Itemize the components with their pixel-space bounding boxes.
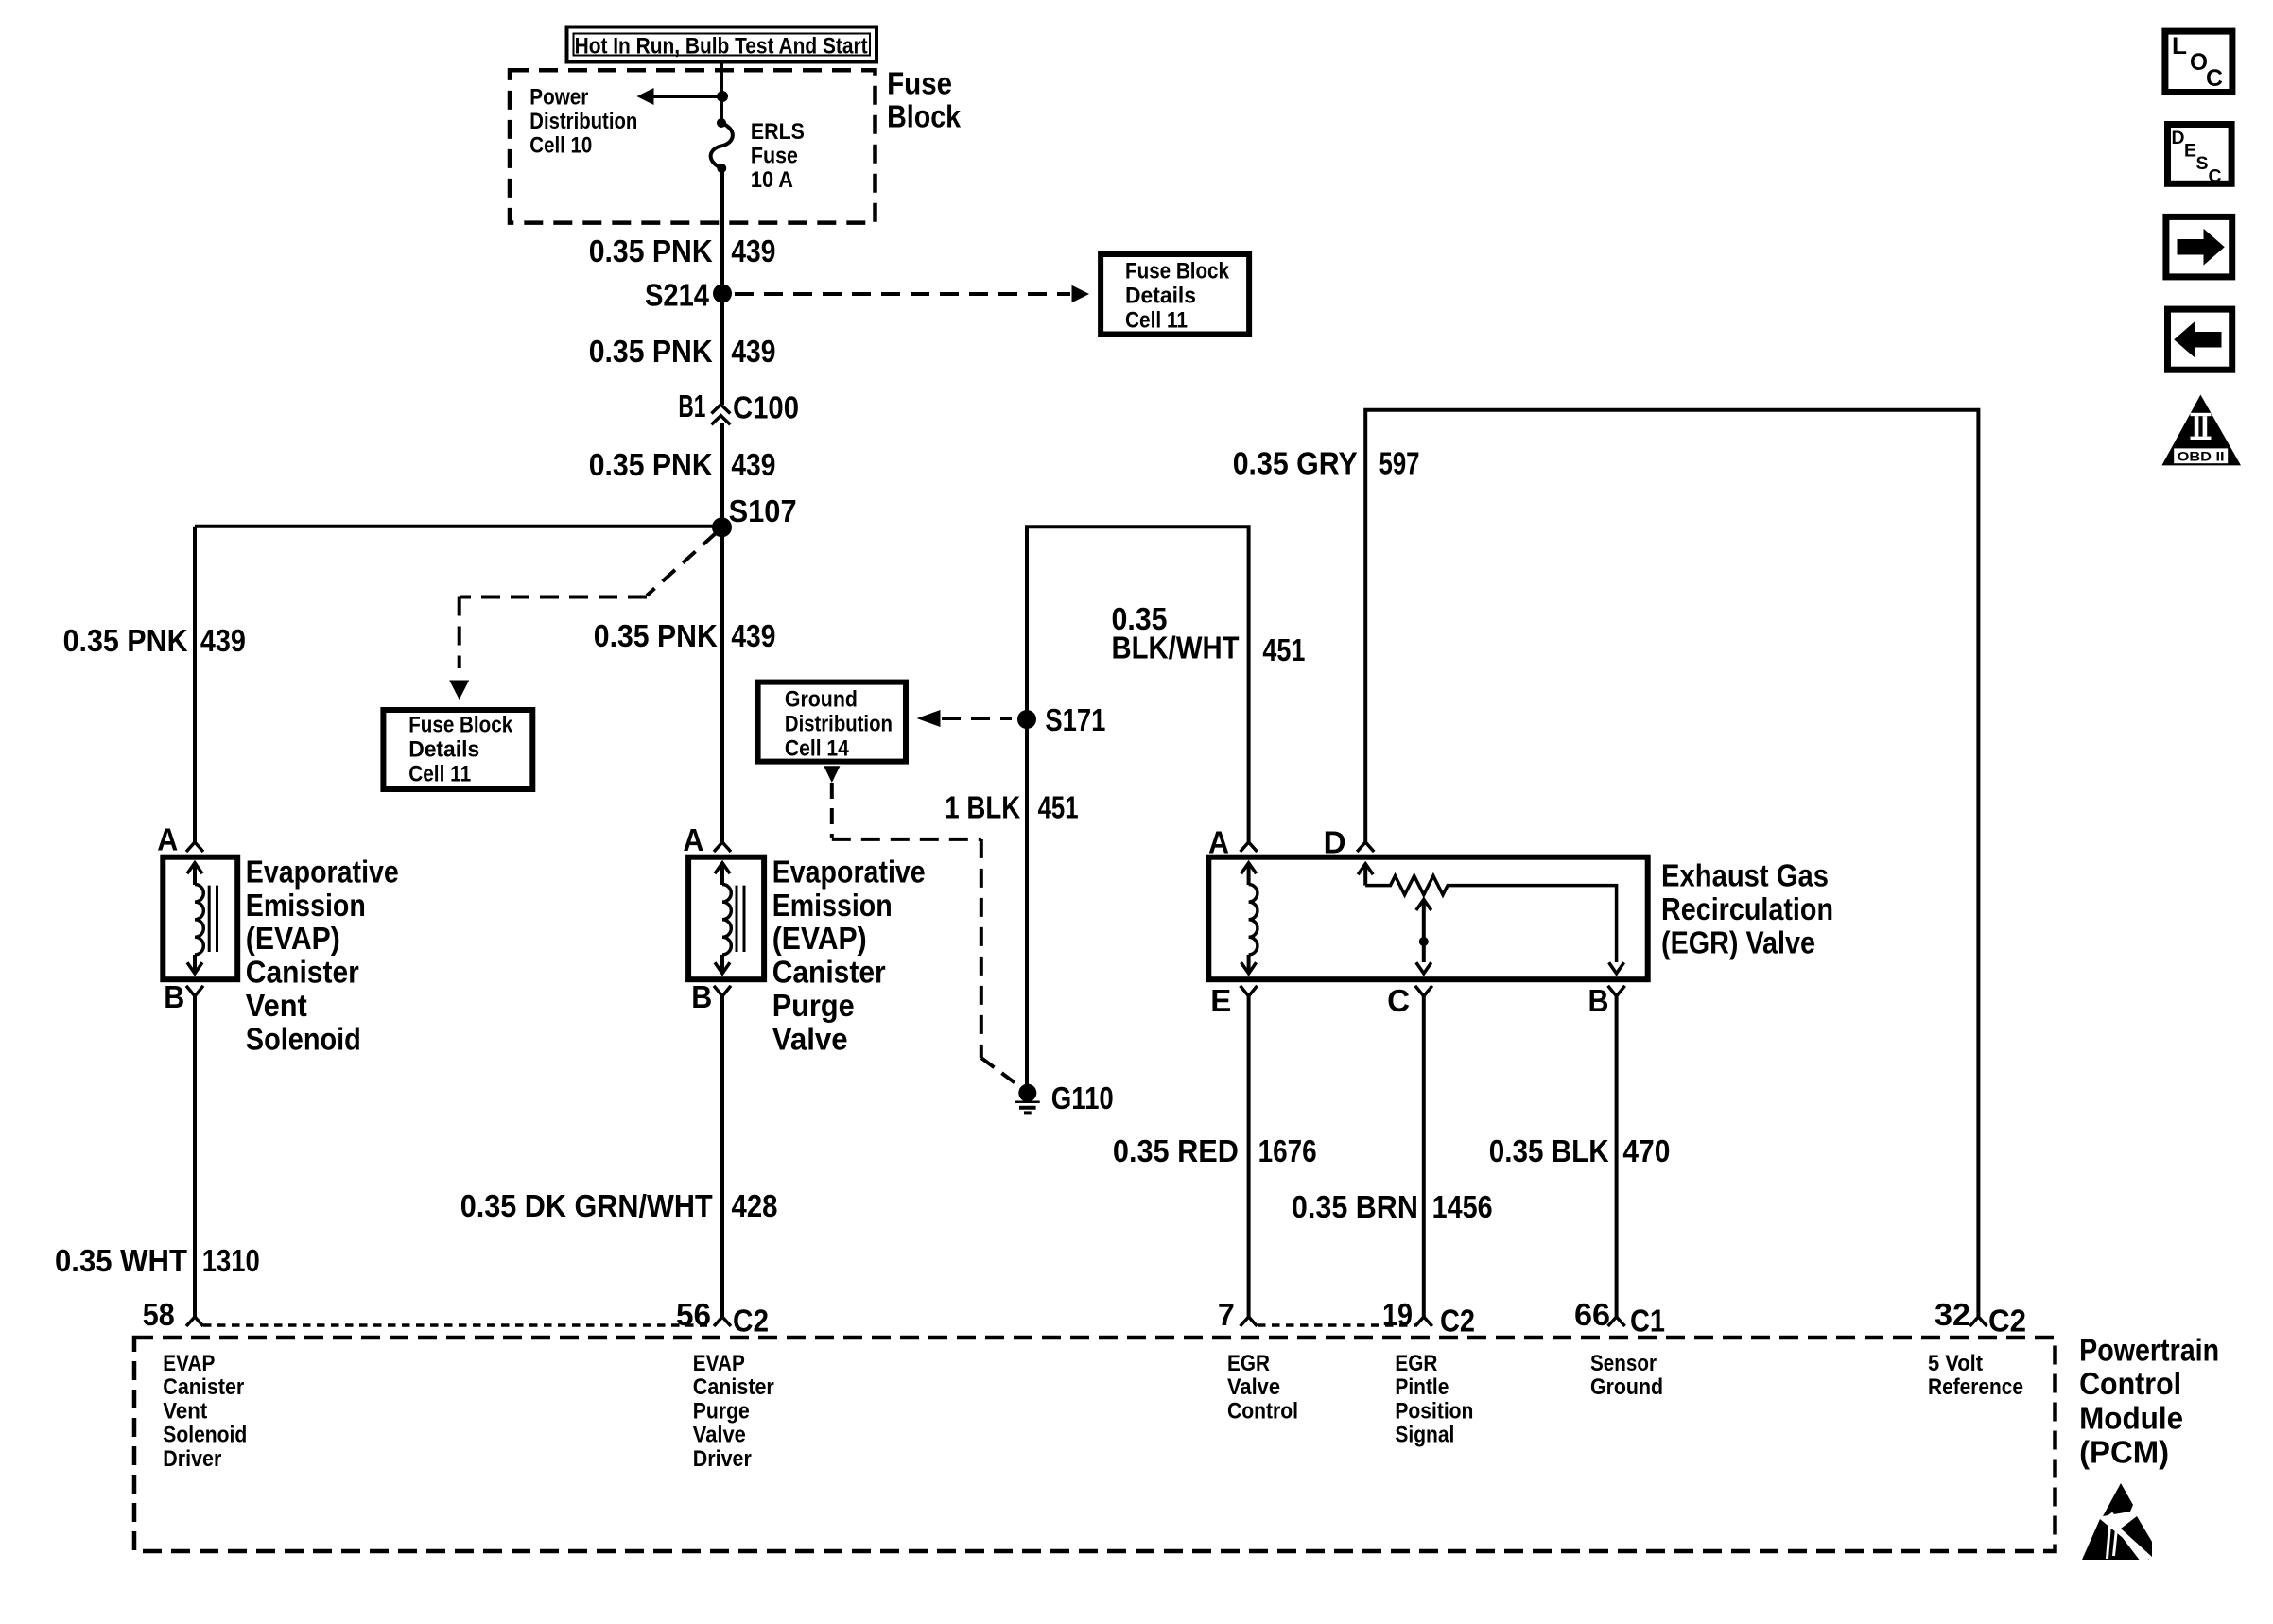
svg-text:Fuse: Fuse — [887, 66, 952, 101]
svg-text:B: B — [164, 979, 184, 1014]
svg-text:BLK/WHT: BLK/WHT — [1112, 630, 1240, 665]
svg-text:Distribution: Distribution — [529, 109, 637, 134]
svg-text:Powertrain: Powertrain — [2079, 1332, 2219, 1367]
svg-text:Ground: Ground — [1590, 1374, 1663, 1400]
wire: hot feed from title box into fuse block — [720, 61, 723, 96]
svg-text:32: 32 — [1935, 1297, 1970, 1332]
svg-text:Valve: Valve — [772, 1021, 848, 1056]
margin icon: OBD II triangle — [2161, 395, 2241, 466]
wire: EGR E to PCM pin 7, 0.35 RED 1676 — [1247, 996, 1251, 1317]
svg-text:S107: S107 — [729, 493, 797, 528]
svg-text:A: A — [157, 822, 178, 857]
svg-text:Valve: Valve — [693, 1423, 746, 1448]
svg-text:451: 451 — [1262, 632, 1305, 667]
splice S171 — [1017, 710, 1036, 729]
dashed reference: G110 to Ground Distribution box — [824, 766, 840, 783]
svg-text:(EVAP): (EVAP) — [772, 921, 867, 956]
svg-text:1 BLK: 1 BLK — [945, 790, 1020, 825]
margin icon: DESC — [2168, 125, 2232, 184]
svg-text:1456: 1456 — [1432, 1189, 1493, 1224]
svg-text:5 Volt: 5 Volt — [1928, 1351, 1983, 1376]
component: EGR valve (box) — [1208, 857, 1647, 979]
svg-text:Sensor: Sensor — [1590, 1351, 1657, 1376]
svg-text:Solenoid: Solenoid — [163, 1423, 247, 1448]
svg-text:439: 439 — [200, 623, 246, 658]
dashed reference from S107 to Fuse Block Details (lower) — [647, 533, 716, 596]
svg-text:439: 439 — [731, 447, 775, 482]
arrow: to Power Distribution Cell 10 — [652, 95, 722, 98]
margin icon: LOC — [2165, 31, 2232, 92]
svg-text:Recirculation: Recirculation — [1661, 891, 1833, 926]
in-line connector C100 terminal B1 — [711, 405, 730, 414]
margin icon: back arrow — [2168, 309, 2232, 370]
svg-text:L: L — [2172, 33, 2187, 60]
wire: S171 to ground G110, 1 BLK 451 — [1025, 719, 1029, 1084]
wire: S107 down to EVAP purge valve — [720, 527, 724, 842]
svg-text:Emission: Emission — [772, 888, 893, 923]
svg-text:Signal: Signal — [1395, 1423, 1454, 1448]
ground G110 — [1018, 1084, 1036, 1102]
svg-text:Cell 11: Cell 11 — [1125, 307, 1188, 333]
svg-text:Vent: Vent — [246, 988, 307, 1023]
svg-text:Cell 10: Cell 10 — [529, 132, 592, 158]
svg-text:E: E — [2184, 142, 2196, 162]
wire: EGR B to PCM pin 66, 0.35 BLK 470 — [1615, 996, 1619, 1317]
component: EVAP canister vent solenoid (box) — [163, 857, 237, 979]
wire: S107 branch to EVAP vent solenoid (horizontal) — [195, 525, 721, 528]
svg-text:0.35 PNK: 0.35 PNK — [589, 334, 713, 369]
svg-text:Control: Control — [1227, 1398, 1298, 1424]
svg-text:Driver: Driver — [693, 1446, 752, 1472]
svg-text:C2: C2 — [1440, 1304, 1475, 1339]
svg-text:Cell 14: Cell 14 — [785, 735, 850, 761]
svg-text:0.35 DK GRN/WHT: 0.35 DK GRN/WHT — [460, 1188, 713, 1223]
svg-text:0.35 WHT: 0.35 WHT — [55, 1243, 187, 1278]
svg-text:0.35 PNK: 0.35 PNK — [594, 618, 718, 653]
svg-text:Vent: Vent — [163, 1398, 207, 1424]
EGR pintle position potentiometer — [1358, 864, 1373, 875]
svg-text:Evaporative: Evaporative — [772, 854, 926, 889]
svg-text:0.35 RED: 0.35 RED — [1113, 1133, 1239, 1168]
svg-text:Fuse Block: Fuse Block — [1125, 258, 1230, 284]
svg-text:66: 66 — [1574, 1297, 1610, 1332]
wire: EVAP vent solenoid B to PCM pin 58, 0.35 WHT 1310 — [193, 996, 197, 1317]
svg-text:Details: Details — [408, 737, 479, 763]
svg-text:7: 7 — [1218, 1297, 1235, 1332]
svg-text:439: 439 — [731, 334, 775, 369]
svg-text:58: 58 — [143, 1297, 175, 1332]
svg-text:0.35 BRN: 0.35 BRN — [1292, 1189, 1418, 1224]
dashed reference arrow: Ground Distribution to S171 — [917, 710, 941, 727]
svg-text:C100: C100 — [733, 390, 799, 425]
svg-text:Details: Details — [1125, 283, 1196, 308]
wire: 0.35 GRY 597 from PCM 5 V reference to EGR pin D — [1365, 410, 1978, 1317]
svg-text:(EGR) Valve: (EGR) Valve — [1661, 924, 1815, 959]
svg-text:Purge: Purge — [772, 988, 855, 1023]
EGR solenoid coil symbol — [1247, 863, 1251, 885]
svg-text:ERLS: ERLS — [751, 119, 805, 145]
reference box: Fuse Block Details Cell 11 (lower) — [383, 710, 532, 789]
wire: S214 to C100, 0.35 PNK 439 — [720, 294, 724, 405]
svg-text:C2: C2 — [733, 1304, 769, 1339]
svg-text:439: 439 — [731, 233, 775, 268]
svg-text:C: C — [2206, 65, 2223, 92]
potentiometer wiper to pin C — [1416, 900, 1431, 911]
svg-text:Driver: Driver — [163, 1446, 221, 1472]
svg-text:Canister: Canister — [772, 955, 886, 990]
svg-text:EGR: EGR — [1395, 1351, 1437, 1376]
wire: ERLS fuse output, 0.35 PNK 439 — [720, 168, 724, 293]
svg-text:Control: Control — [2079, 1366, 2181, 1401]
svg-text:Emission: Emission — [246, 888, 366, 923]
svg-text:Ground: Ground — [785, 686, 858, 712]
svg-text:451: 451 — [1038, 790, 1079, 825]
svg-text:Distribution: Distribution — [785, 711, 893, 736]
svg-text:EVAP: EVAP — [163, 1351, 215, 1376]
svg-text:470: 470 — [1622, 1133, 1670, 1168]
svg-text:Fuse: Fuse — [751, 144, 798, 169]
svg-text:Cell 11: Cell 11 — [408, 762, 471, 787]
wire: C100 to S107, 0.35 PNK 439 — [720, 423, 724, 527]
svg-text:Purge: Purge — [693, 1398, 750, 1424]
svg-text:0.35 PNK: 0.35 PNK — [589, 233, 713, 268]
wire: tap to fuse — [720, 96, 723, 123]
wire: EVAP purge valve B to PCM pin 56, 0.35 DK GRN/WHT 428 — [720, 996, 724, 1317]
svg-text:Fuse Block: Fuse Block — [408, 713, 513, 738]
connector grouping (dotted) pins 7-19 — [1258, 1323, 1415, 1327]
svg-text:0.35 PNK: 0.35 PNK — [63, 623, 188, 658]
svg-text:Solenoid: Solenoid — [246, 1021, 361, 1056]
Powertrain Control Module (dashed box) — [134, 1338, 2056, 1551]
svg-text:D: D — [2172, 129, 2185, 148]
reference box: Fuse Block Details Cell 11 (upper) — [1101, 254, 1249, 335]
label box: Hot In Run, Bulb Test And Start — [567, 27, 877, 62]
svg-text:597: 597 — [1379, 445, 1420, 480]
svg-text:Exhaust Gas: Exhaust Gas — [1661, 857, 1829, 892]
svg-text:B: B — [691, 979, 712, 1014]
svg-text:1310: 1310 — [202, 1243, 260, 1278]
svg-text:EGR: EGR — [1227, 1351, 1270, 1376]
svg-text:0.35 GRY: 0.35 GRY — [1233, 445, 1358, 480]
svg-text:Evaporative: Evaporative — [246, 854, 399, 889]
svg-text:10 A: 10 A — [751, 167, 793, 193]
svg-text:439: 439 — [731, 618, 775, 653]
svg-text:0.35 BLK: 0.35 BLK — [1489, 1133, 1609, 1168]
svg-text:G110: G110 — [1051, 1080, 1114, 1115]
svg-text:Module: Module — [2079, 1401, 2183, 1436]
svg-text:Pintle: Pintle — [1395, 1374, 1449, 1400]
svg-text:Canister: Canister — [163, 1374, 244, 1400]
wire: left branch down to EVAP vent solenoid, 0.35 PNK 439 — [193, 527, 197, 842]
wire: 0.35 BLK/WHT 451 from S171 up and over to EGR pin A — [1027, 527, 1249, 842]
svg-text:S171: S171 — [1045, 702, 1105, 737]
svg-text:Block: Block — [887, 99, 962, 134]
ESD sensitivity symbol — [2103, 1483, 2133, 1516]
solenoid coil symbol (purge) — [720, 863, 724, 885]
solenoid coil symbol (vent) — [193, 863, 197, 885]
svg-text:428: 428 — [732, 1188, 778, 1223]
svg-text:C2: C2 — [1988, 1304, 2026, 1339]
svg-text:1676: 1676 — [1258, 1133, 1317, 1168]
svg-text:Valve: Valve — [1227, 1374, 1280, 1400]
wire: EGR C to PCM pin 19, 0.35 BRN 1456 — [1422, 996, 1426, 1317]
svg-text:A: A — [683, 822, 703, 857]
svg-text:EVAP: EVAP — [693, 1351, 745, 1376]
svg-text:E: E — [1210, 983, 1231, 1018]
fuse block (dashed box) — [510, 70, 876, 222]
component: EVAP canister purge valve (box) — [688, 857, 764, 979]
svg-text:Canister: Canister — [246, 955, 359, 990]
reference box: Ground Distribution Cell 14 — [758, 682, 906, 762]
margin icon: forward arrow — [2166, 216, 2232, 277]
svg-text:C: C — [2209, 167, 2222, 187]
svg-text:B: B — [1588, 983, 1609, 1018]
svg-text:Power: Power — [529, 84, 588, 110]
svg-text:Canister: Canister — [693, 1374, 774, 1400]
svg-text:Reference: Reference — [1928, 1374, 2023, 1400]
svg-text:(EVAP): (EVAP) — [246, 921, 340, 956]
svg-text:C: C — [1387, 983, 1410, 1018]
splice S214 — [713, 285, 732, 303]
svg-text:Position: Position — [1395, 1398, 1473, 1424]
svg-text:B1: B1 — [678, 389, 705, 423]
svg-text:S: S — [2196, 154, 2209, 174]
dashed reference line from S214 to Fuse Block Details — [735, 292, 1070, 296]
svg-text:Hot In Run, Bulb Test And Star: Hot In Run, Bulb Test And Start — [575, 34, 868, 60]
junction dot at power distribution tap — [717, 91, 728, 102]
connector grouping (dotted) pins 58-56 — [203, 1323, 707, 1327]
svg-text:(PCM): (PCM) — [2079, 1434, 2169, 1469]
fuse ERLS 10 A (S-curve symbol) — [717, 118, 726, 128]
svg-text:C1: C1 — [1630, 1304, 1665, 1339]
svg-text:S214: S214 — [645, 277, 710, 312]
svg-text:OBD II: OBD II — [2178, 449, 2225, 464]
svg-text:0.35 PNK: 0.35 PNK — [589, 447, 713, 482]
